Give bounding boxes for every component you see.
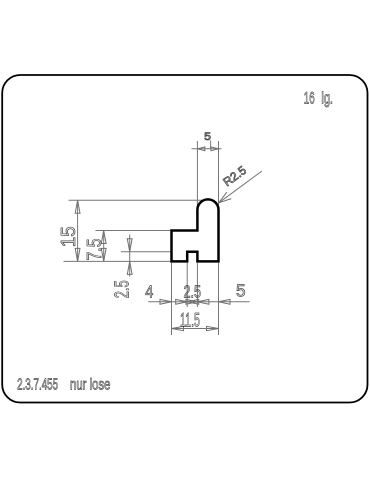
svg-text:lg.: lg. (321, 89, 333, 108)
svg-text:2.5: 2.5 (112, 280, 134, 298)
svg-text:5: 5 (236, 281, 246, 301)
svg-text:7.5: 7.5 (84, 239, 106, 261)
svg-text:2.3.7.455: 2.3.7.455 (17, 376, 58, 393)
svg-text:2.5: 2.5 (183, 282, 201, 302)
svg-text:4: 4 (145, 281, 153, 301)
svg-text:nur lose: nur lose (70, 376, 111, 393)
svg-text:16: 16 (304, 89, 315, 108)
svg-text:11.5: 11.5 (180, 310, 200, 332)
svg-text:5: 5 (204, 131, 211, 143)
svg-text:15: 15 (58, 226, 80, 247)
